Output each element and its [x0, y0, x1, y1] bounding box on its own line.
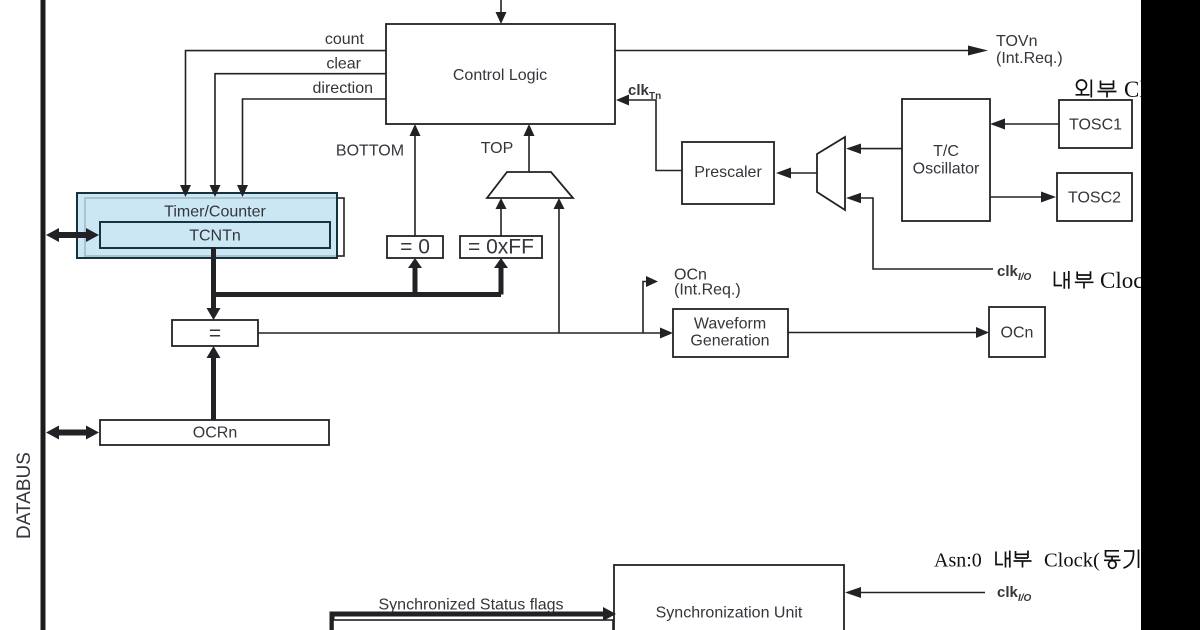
svg-text:(Int.Req.): (Int.Req.) — [996, 50, 1063, 67]
svg-text:direction: direction — [313, 80, 373, 97]
wire clk_IO to sync unit — [845, 587, 985, 598]
svg-text:TOVn: TOVn — [996, 33, 1038, 50]
svg-text:OCRn: OCRn — [193, 425, 237, 442]
svg-text:Waveform: Waveform — [694, 316, 766, 333]
timer/counter shadow box — [85, 198, 344, 256]
svg-text:clear: clear — [326, 56, 361, 73]
TOSC1 pin box — [1059, 100, 1132, 148]
svg-text:clk: clk — [997, 263, 1019, 280]
svg-text:Synchronized Status flags: Synchronized Status flags — [379, 597, 564, 614]
wire TCCRn input from top — [496, 0, 507, 24]
label Asn:0 내부 Clock(동기 — [934, 550, 1139, 572]
wire = 0xFF to TOP mux — [496, 198, 507, 236]
svg-text:Generation: Generation — [690, 333, 769, 350]
wire count with arrow — [180, 51, 386, 197]
wire clk_Tn prescaler to control logic — [616, 95, 682, 171]
waveform generation box — [673, 309, 788, 357]
clock source mux trapezoid — [817, 137, 845, 210]
wire compare match to waveform generation — [258, 328, 673, 339]
label TOVn (Int.Req.) — [996, 33, 1063, 67]
label clk_IO bottom — [997, 584, 1032, 604]
svg-text:Tn: Tn — [649, 91, 661, 102]
svg-text:clk: clk — [628, 82, 650, 99]
thick bus TCNTn value to comparators — [207, 247, 509, 320]
label 외부 Clock top — [1076, 77, 1180, 102]
timer/counter highlight box — [77, 193, 337, 258]
wire OCRn tap to TOP mux — [554, 198, 565, 333]
label clk_Tn — [628, 82, 661, 102]
wire clear with arrow — [210, 74, 387, 197]
svg-text:Oscillator: Oscillator — [913, 161, 980, 178]
svg-text:TOSC2: TOSC2 — [1068, 190, 1121, 207]
TOP mux trapezoid — [487, 172, 573, 198]
thick bus OCRn to comparator — [207, 346, 221, 420]
wire OCn interrupt tap — [643, 276, 658, 333]
wire direction with arrow — [237, 99, 386, 197]
wire OCn output — [788, 327, 989, 338]
wire BOTTOM: = 0 to control logic — [410, 124, 421, 236]
label OCn (Int.Req.) — [674, 267, 741, 299]
svg-text:DATABUS: DATABUS — [14, 452, 35, 539]
svg-text:I/O: I/O — [1018, 593, 1032, 604]
svg-text:Control Logic: Control Logic — [453, 67, 547, 84]
svg-text:Synchronization Unit: Synchronization Unit — [656, 605, 803, 622]
wire mux to prescaler — [776, 168, 817, 179]
svg-text:=: = — [209, 322, 221, 345]
svg-text:count: count — [325, 31, 365, 48]
bidirectional arrow DATABUS to TCNTn — [46, 228, 99, 242]
svg-text:BOTTOM: BOTTOM — [336, 143, 404, 160]
svg-text:TOSC1: TOSC1 — [1069, 117, 1122, 134]
TOSC2 pin box — [1057, 173, 1132, 221]
control logic box — [386, 24, 615, 124]
wire TOP: mux to control logic — [524, 124, 535, 172]
label 내부 Clock mid — [1055, 268, 1156, 293]
thick bus synchronized status flags — [332, 607, 616, 630]
label clk_IO mid — [997, 263, 1032, 283]
status flags box (cut at bottom) — [333, 620, 613, 630]
wire TOSC1 to oscillator — [990, 119, 1059, 130]
wire oscillator to mux — [846, 144, 902, 155]
comparator box = 0xFF — [460, 236, 542, 259]
wire clk_IO to mux — [846, 193, 993, 269]
comparator box = — [172, 320, 258, 346]
wire: DATABUS vertical bus — [41, 0, 46, 630]
comparator box = 0 — [387, 236, 443, 259]
svg-text:Asn:0: Asn:0 — [934, 550, 982, 572]
bidirectional arrow DATABUS to OCRn — [46, 426, 99, 440]
svg-text:I/O: I/O — [1018, 272, 1032, 283]
svg-text:(Int.Req.): (Int.Req.) — [674, 282, 741, 299]
svg-text:Clock(: Clock( — [1044, 550, 1100, 572]
wire oscillator to TOSC2 — [990, 192, 1056, 203]
svg-text:= 0xFF: = 0xFF — [468, 236, 534, 259]
svg-text:TOP: TOP — [481, 140, 514, 157]
synchronization unit box — [614, 565, 844, 630]
wire TOVn overflow — [615, 46, 988, 56]
black crop band right — [1141, 0, 1200, 630]
svg-text:= 0: = 0 — [400, 236, 430, 259]
prescaler box — [682, 142, 774, 204]
OCn pin box — [989, 307, 1045, 357]
TCNTn register box — [100, 222, 330, 248]
T/C oscillator box — [902, 99, 990, 221]
OCRn register box — [100, 420, 329, 445]
svg-text:OCn: OCn — [1001, 325, 1034, 342]
svg-text:clk: clk — [997, 584, 1019, 601]
svg-text:Timer/Counter: Timer/Counter — [164, 204, 266, 221]
svg-text:Prescaler: Prescaler — [694, 164, 762, 181]
svg-text:TCNTn: TCNTn — [189, 228, 241, 245]
svg-text:T/C: T/C — [933, 143, 959, 160]
